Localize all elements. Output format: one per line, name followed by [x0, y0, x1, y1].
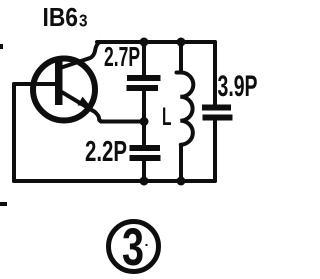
junction bottom-right [177, 177, 186, 186]
svg-text:L: L [162, 103, 172, 131]
svg-text:3: 3 [79, 11, 88, 31]
label 1B63 [43, 2, 88, 32]
junction top-left [140, 38, 149, 47]
speckle inside figure circle [146, 244, 148, 246]
wire capacitor branch lower [142, 161, 146, 181]
capacitor C2 2.2P [130, 148, 161, 158]
wire top rail [97, 40, 215, 44]
svg-text:3.9P: 3.9P [218, 70, 258, 103]
speckle left edge upper [0, 44, 3, 49]
wire inductor branch upper [179, 42, 183, 72]
wire emitter horizontal [101, 120, 144, 124]
transistor Q1 1B63 [33, 42, 103, 122]
junction emitter node [140, 117, 149, 126]
junction bottom-left [140, 177, 149, 186]
capacitor C3 3.9P [202, 108, 233, 118]
svg-text:IB6: IB6 [43, 2, 79, 32]
svg-text:3: 3 [122, 218, 144, 277]
wire capacitor branch middle [142, 92, 146, 144]
capacitor C1 2.7P [127, 78, 161, 88]
wire bottom rail [14, 179, 215, 183]
svg-text:2.7P: 2.7P [104, 41, 140, 72]
wire right branch upper [213, 42, 217, 104]
figure number circled 3 [109, 218, 159, 277]
wire right branch lower [213, 121, 217, 181]
wire capacitor branch upper [142, 42, 146, 74]
wire left vertical [12, 84, 16, 181]
wire inductor branch lower [179, 146, 183, 181]
junction top-right [177, 38, 186, 47]
svg-text:2.2P: 2.2P [85, 136, 127, 168]
inductor L coil [177, 73, 194, 145]
wire base lead [14, 82, 56, 86]
speckle left edge lower [0, 202, 7, 206]
